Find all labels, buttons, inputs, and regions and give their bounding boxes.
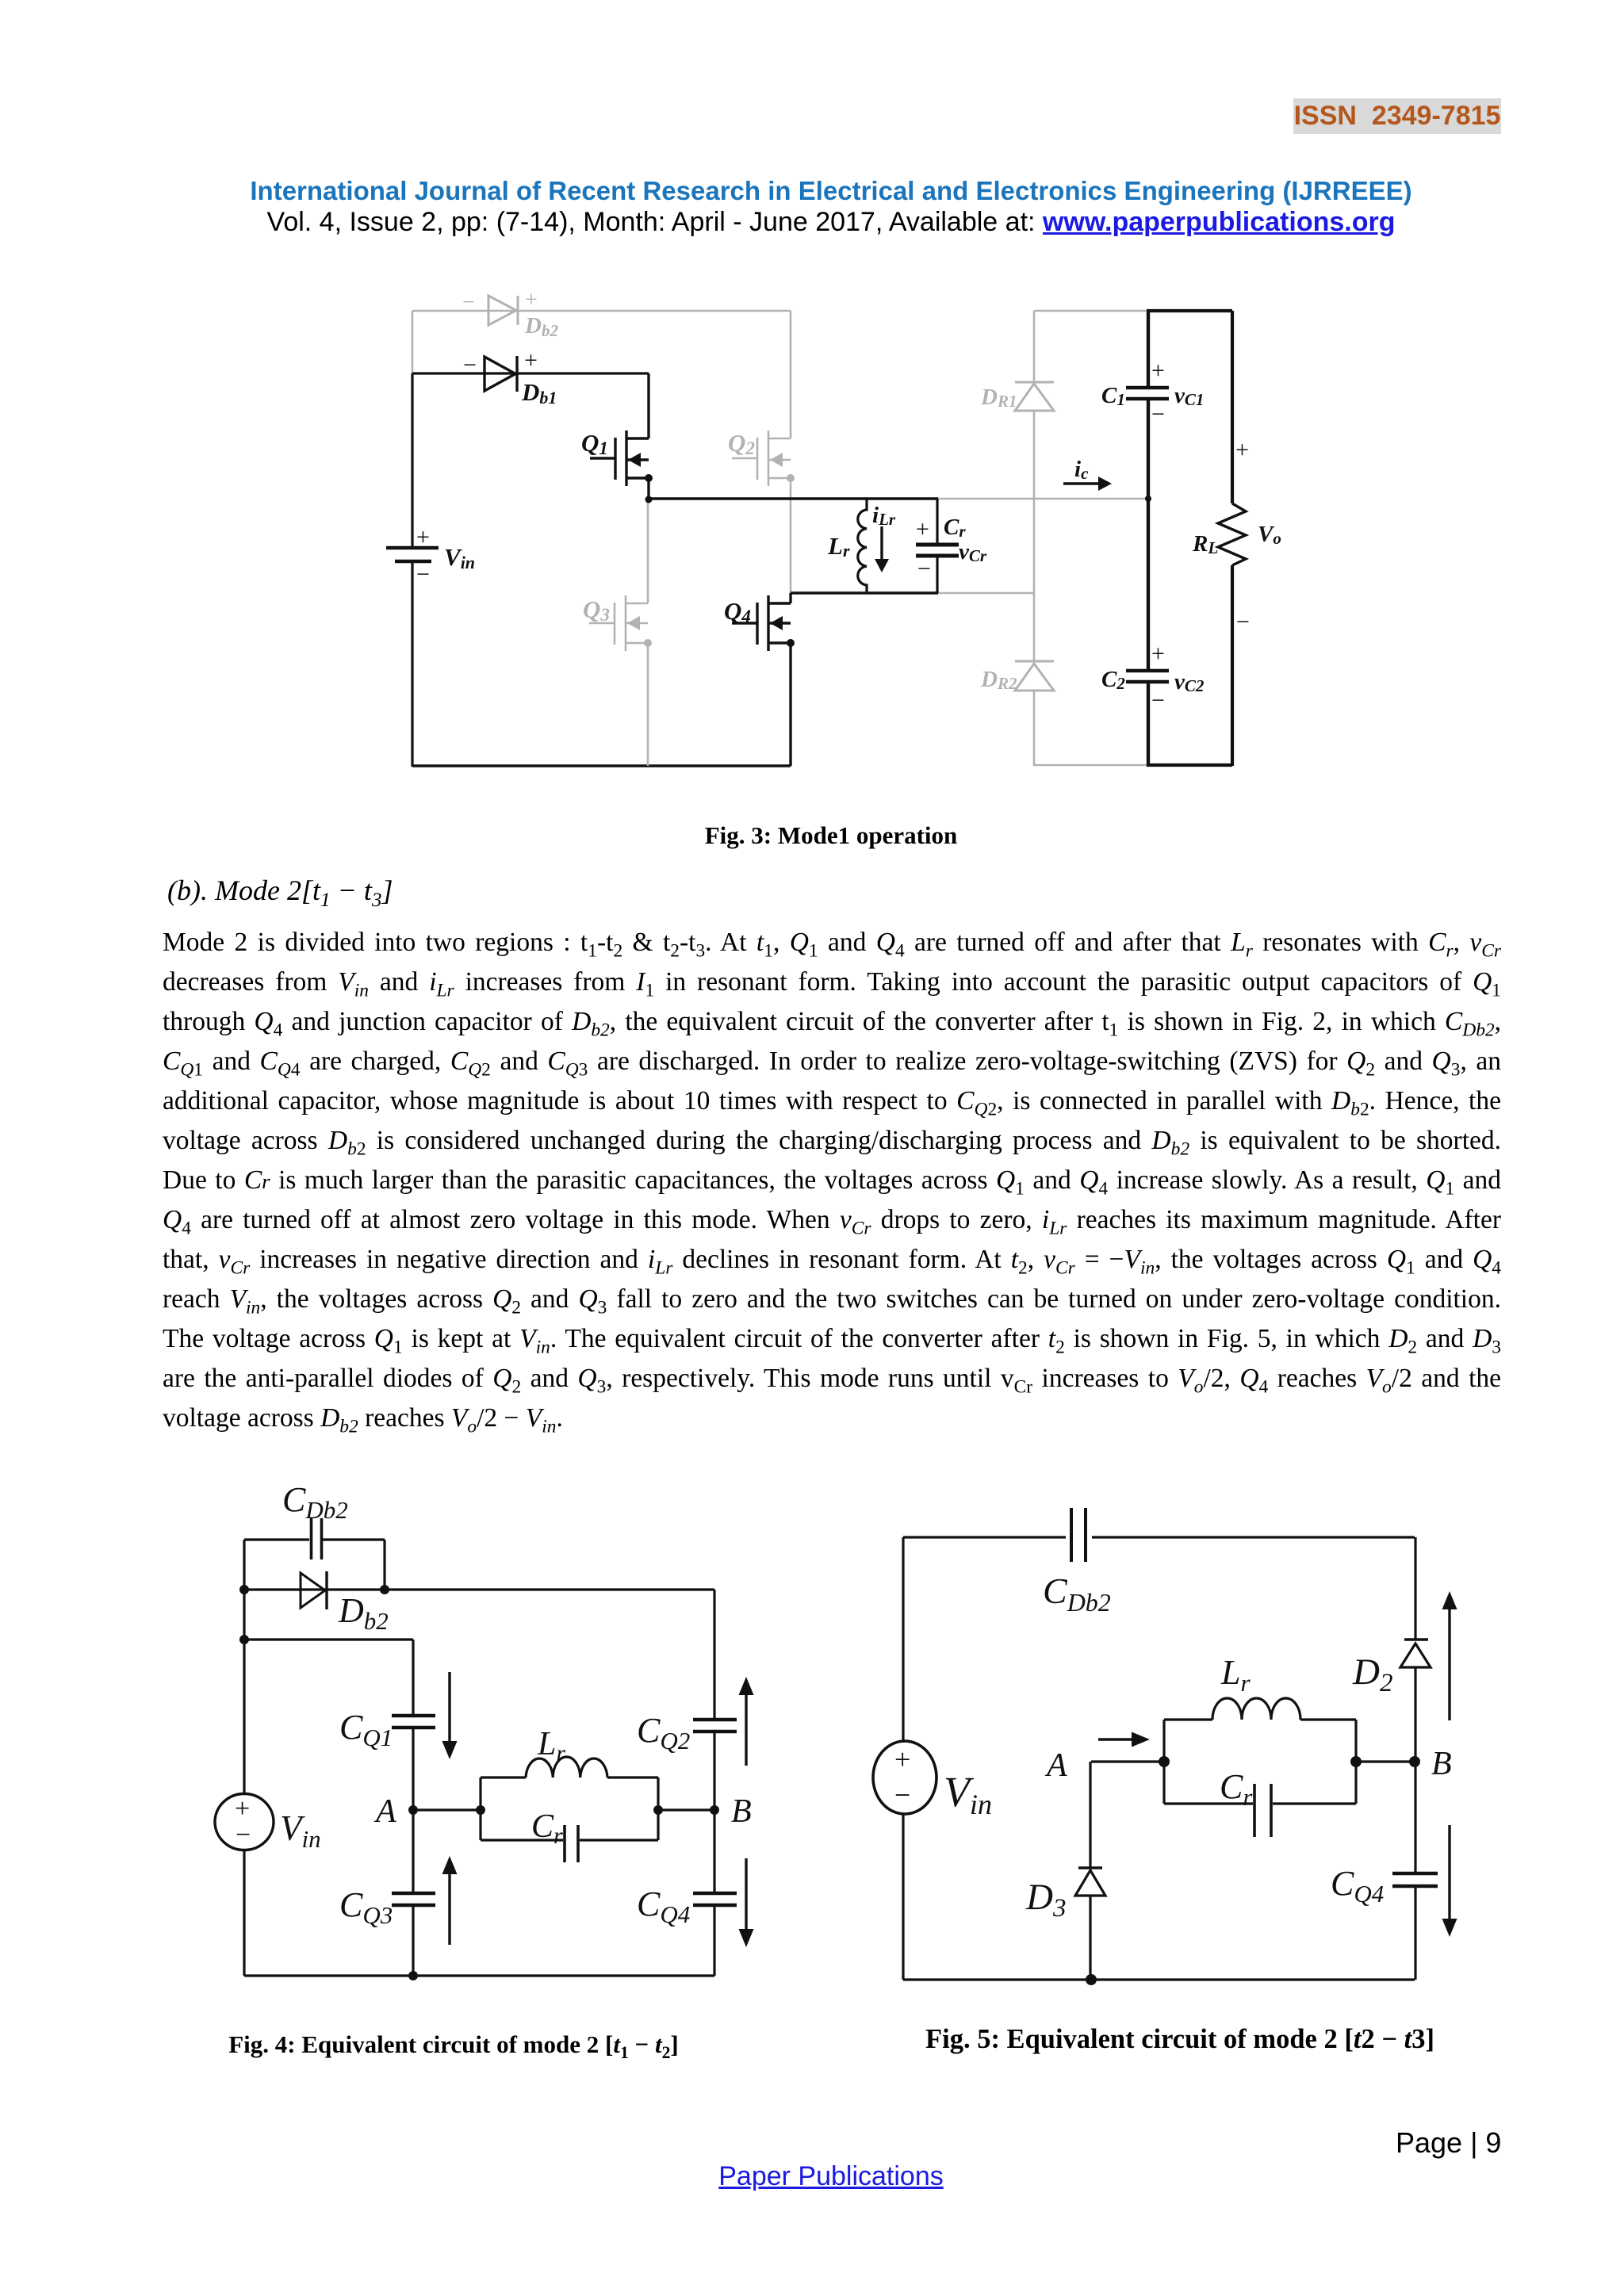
wire DR leg upper gray	[1033, 311, 1036, 382]
svg-text:CQ1: CQ1	[339, 1708, 393, 1751]
svg-text:DR1: DR1	[980, 385, 1017, 411]
wire right leg middle	[1414, 1667, 1416, 1873]
wire CQ3 leg lower	[412, 1907, 414, 1976]
wire gray top rail	[412, 310, 791, 312]
node mid rail junction	[1145, 496, 1151, 502]
svg-text:D3: D3	[1025, 1877, 1066, 1923]
svg-text:RL: RL	[1192, 531, 1218, 557]
wire DR leg lower gray	[1033, 691, 1036, 766]
svg-text:+: +	[1151, 358, 1165, 384]
transistor Q1	[590, 373, 649, 500]
svg-text:vC1: vC1	[1174, 383, 1204, 409]
wire tank to B	[1356, 1760, 1415, 1762]
wire DR top rail gray	[1034, 310, 1147, 312]
svg-text:Vin: Vin	[280, 1808, 321, 1853]
battery Vin plates	[386, 546, 439, 550]
capacitor CQ3	[392, 1892, 435, 1895]
svg-text:Lr: Lr	[537, 1726, 565, 1766]
svg-text:Cr: Cr	[944, 515, 966, 541]
svg-text:−: −	[416, 561, 430, 587]
arrow ic current	[1063, 482, 1101, 485]
diode DR2 (gray)	[1015, 661, 1054, 691]
figure 3: Mode1 operation schematic	[0, 270, 1624, 809]
wire A to tank	[1091, 1760, 1164, 1762]
wire Db1 rail	[412, 372, 649, 374]
wire top rail right black	[1147, 309, 1232, 312]
svg-text:Cr: Cr	[1220, 1767, 1253, 1811]
node tank right	[653, 1805, 663, 1815]
node B	[1409, 1756, 1420, 1767]
node tank left	[1159, 1756, 1170, 1767]
svg-text:A: A	[1044, 1747, 1067, 1784]
caption Fig 5	[853, 2024, 1507, 2055]
svg-text:Vo: Vo	[1258, 522, 1281, 548]
wire right leg lower	[713, 1907, 715, 1976]
arrow iLr current	[880, 526, 883, 561]
wire right leg upper	[713, 1590, 715, 1719]
capacitor C2	[1126, 669, 1169, 673]
caption Fig 3	[143, 821, 1519, 850]
capacitor Cr	[936, 499, 938, 543]
node Q1-Q3 junction	[645, 496, 653, 503]
svg-text:C2: C2	[1101, 667, 1125, 693]
journal subtitle	[143, 207, 1519, 237]
wire tank top edge	[1164, 1718, 1356, 1720]
wire tank bottom edge	[1164, 1802, 1356, 1804]
node A	[408, 1805, 418, 1815]
svg-text:Db2: Db2	[338, 1591, 389, 1635]
wire left vertical lower	[243, 1850, 245, 1976]
svg-text:−: −	[1151, 401, 1165, 427]
capacitor CQ4	[1392, 1872, 1438, 1875]
node B	[710, 1805, 719, 1815]
wire C leg upper	[1147, 311, 1150, 386]
wire D3 to bottom	[1089, 1896, 1091, 1980]
inductor Lr	[1212, 1698, 1300, 1720]
capacitor Cr	[1253, 1784, 1256, 1837]
wire tank left edge	[1162, 1720, 1165, 1804]
journal title	[143, 176, 1519, 206]
diode Db2	[301, 1573, 325, 1608]
diode D2	[1404, 1638, 1428, 1641]
node dot left diode rail	[239, 1585, 249, 1594]
source Vin circle	[215, 1794, 274, 1850]
svg-text:+: +	[416, 524, 430, 550]
diode Db1	[485, 356, 517, 392]
node dot A-branch	[239, 1635, 249, 1644]
transistor Q2 (gray)	[732, 311, 791, 593]
node tank right	[1350, 1756, 1362, 1767]
svg-text:−: −	[1151, 687, 1165, 714]
diode D3	[1078, 1866, 1102, 1869]
svg-text:Cr: Cr	[531, 1808, 563, 1849]
arrow current direction	[1098, 1738, 1134, 1741]
wire mid rail gray	[938, 498, 1148, 500]
transistor Q3 (gray)	[589, 499, 648, 766]
wire tank bottom rail gray	[938, 592, 1034, 595]
svg-text:Q3: Q3	[583, 595, 610, 625]
wire CDb2 left drop	[383, 1540, 385, 1590]
svg-text:B: B	[1431, 1746, 1452, 1782]
wire mid rail black	[649, 497, 938, 499]
arrow CQ4 current (down)	[1448, 1825, 1450, 1919]
diode Db2 (gray)	[488, 296, 518, 325]
resistor RL	[1218, 503, 1246, 565]
svg-text:A: A	[373, 1793, 396, 1830]
capacitor CDb2	[1070, 1508, 1073, 1562]
figure 4: equivalent circuit of mode 2 [t1-t2]	[0, 1467, 833, 1998]
svg-text:+: +	[524, 347, 538, 373]
svg-text:D2: D2	[1352, 1651, 1392, 1697]
node dot bottom D3	[1086, 1974, 1097, 1985]
wire left leg lower	[902, 1814, 904, 1980]
footer link	[143, 2161, 1519, 2192]
wire tank bottom rail black	[791, 591, 938, 594]
wire tank right edge	[657, 1777, 659, 1840]
svg-text:CQ4: CQ4	[637, 1885, 690, 1928]
svg-text:Db1: Db1	[521, 378, 557, 408]
svg-text:Q4: Q4	[724, 597, 751, 626]
wire A to tank	[413, 1808, 481, 1811]
wire CDb2 branch	[244, 1538, 385, 1540]
wire CQ1 leg lower	[412, 1729, 414, 1810]
svg-text:+: +	[1235, 437, 1249, 463]
capacitor CDb2	[310, 1518, 313, 1559]
wire tank bottom edge	[481, 1839, 658, 1841]
svg-text:C1: C1	[1101, 383, 1125, 409]
wire A branch	[244, 1638, 413, 1640]
figure 5: equivalent circuit of mode 2 [t2-t3]	[833, 1467, 1624, 1998]
wire left leg upper	[902, 1537, 904, 1743]
caption Fig 4	[127, 2030, 780, 2059]
source Vin ellipse	[873, 1741, 936, 1814]
svg-text:CQ3: CQ3	[339, 1885, 393, 1929]
transistor Q4	[732, 593, 791, 766]
svg-text:CDb2: CDb2	[1043, 1571, 1111, 1617]
svg-text:−: −	[236, 1820, 251, 1850]
svg-text:DR2: DR2	[980, 667, 1017, 693]
svg-text:+: +	[1151, 641, 1165, 667]
capacitor CQ4	[693, 1892, 737, 1895]
arrow charging CQ4 (down)	[745, 1858, 747, 1931]
capacitor Cr	[563, 1825, 566, 1862]
arrow charging CQ1 (down)	[448, 1672, 450, 1743]
wire left vertical upper	[411, 373, 413, 547]
svg-text:Db2: Db2	[524, 313, 558, 340]
arrow discharging CQ2 (up)	[739, 1677, 754, 1695]
wire A leg vertical	[1089, 1762, 1091, 1868]
svg-text:vCr: vCr	[959, 539, 987, 565]
wire right leg lower	[1414, 1888, 1416, 1980]
diode DR1 (gray)	[1015, 382, 1054, 411]
wire RL leg upper	[1231, 311, 1234, 503]
wire tank to B	[658, 1808, 714, 1811]
wire DR leg middle gray	[1033, 411, 1036, 661]
svg-text:+: +	[235, 1794, 250, 1823]
wire C leg middle	[1147, 400, 1150, 669]
inductor Lr	[858, 499, 867, 593]
wire CQ1 leg upper	[412, 1640, 414, 1714]
page number	[1396, 2126, 1501, 2160]
svg-text:ic: ic	[1074, 457, 1089, 483]
wire bottom rail right black	[1147, 763, 1232, 767]
wire tank top edge	[481, 1776, 658, 1778]
wire bottom rail	[903, 1978, 1415, 1980]
svg-text:−: −	[462, 290, 475, 315]
section heading (b). Mode 2	[167, 874, 393, 907]
wire C leg lower	[1147, 683, 1150, 766]
capacitor CQ2	[693, 1718, 737, 1721]
svg-text:+: +	[916, 516, 929, 542]
wire top rail	[903, 1536, 1415, 1538]
svg-text:+: +	[525, 288, 538, 312]
svg-text:Q1: Q1	[581, 429, 608, 458]
capacitor C1	[1126, 386, 1169, 390]
svg-text:Q2: Q2	[728, 429, 755, 458]
arrow D2 current (up)	[1442, 1591, 1457, 1609]
svg-text:iLr: iLr	[872, 503, 896, 529]
svg-text:CDb2: CDb2	[282, 1480, 348, 1524]
wire right leg upper	[1414, 1537, 1416, 1640]
wire left vertical lower	[411, 561, 413, 767]
wire gray left segment	[412, 311, 414, 373]
svg-text:−: −	[894, 1779, 910, 1811]
svg-text:Vin: Vin	[444, 543, 475, 572]
svg-text:−: −	[917, 556, 931, 582]
node dot bottom	[408, 1971, 418, 1980]
svg-text:vC2: vC2	[1174, 669, 1205, 695]
svg-text:Vin: Vin	[944, 1768, 992, 1820]
capacitor CQ1	[392, 1714, 435, 1717]
wire left vertical	[243, 1540, 245, 1794]
wire bottom rail	[244, 1974, 714, 1976]
body paragraph	[163, 928, 1501, 1443]
svg-text:CQ4: CQ4	[1331, 1864, 1384, 1908]
svg-text:Lr: Lr	[1220, 1653, 1251, 1697]
svg-text:Lr: Lr	[827, 532, 850, 561]
wire diode rail	[244, 1588, 714, 1590]
svg-text:−: −	[1236, 609, 1250, 635]
inductor Lr	[526, 1757, 607, 1777]
svg-text:B: B	[731, 1793, 752, 1830]
ISSN badge	[1293, 98, 1501, 134]
wire tank left edge	[479, 1777, 481, 1840]
svg-text:+: +	[894, 1743, 910, 1775]
node tank left	[476, 1805, 485, 1815]
arrow discharging CQ3 (up)	[442, 1856, 458, 1874]
svg-text:CQ2: CQ2	[637, 1711, 690, 1755]
node dot right diode rail	[380, 1585, 389, 1594]
wire bottom rail right gray	[1034, 764, 1147, 767]
wire right leg middle	[713, 1733, 715, 1892]
wire CQ3 leg upper	[412, 1810, 414, 1892]
wire tank right edge	[1354, 1720, 1357, 1804]
wire RL leg lower	[1231, 565, 1234, 766]
wire bottom rail left	[412, 764, 791, 767]
svg-text:−: −	[463, 352, 477, 378]
